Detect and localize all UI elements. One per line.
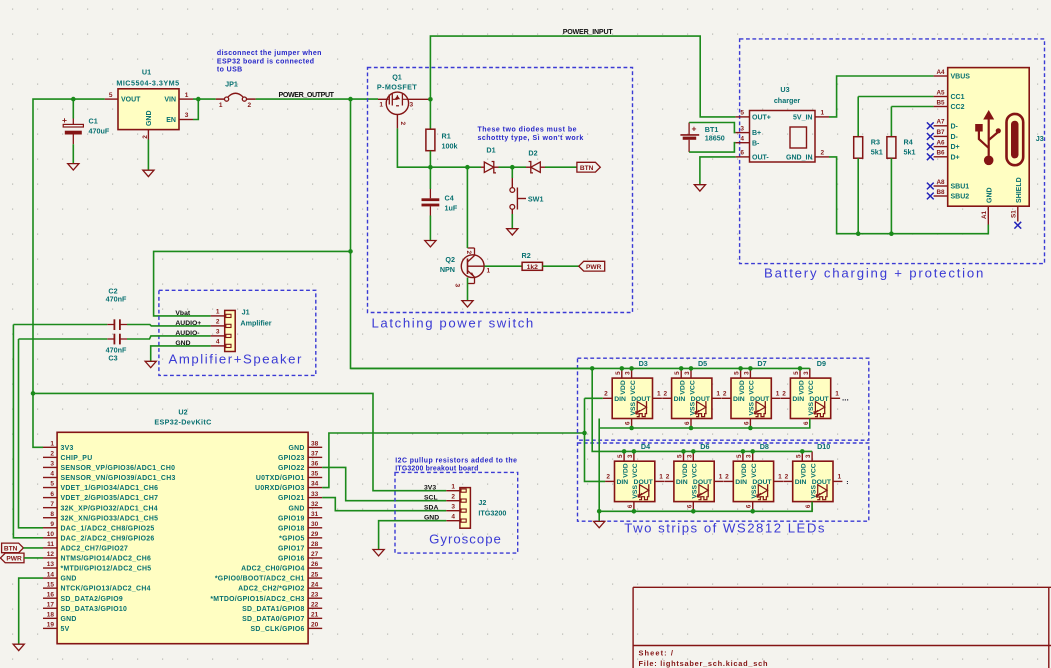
pin 26 ADC2_CH0/GPIO4 of U2 xyxy=(308,567,322,569)
svg-text:5: 5 xyxy=(617,454,624,458)
svg-text:DOUT: DOUT xyxy=(691,396,711,403)
svg-text:BTN: BTN xyxy=(580,165,594,172)
LED D8 WS2812 xyxy=(733,461,773,501)
svg-text:ADC2_CH7/GPIO27: ADC2_CH7/GPIO27 xyxy=(61,546,129,553)
svg-text:DIN: DIN xyxy=(617,479,629,486)
svg-text:37: 37 xyxy=(311,451,319,458)
node Q1 drain / R1 junction xyxy=(428,97,433,102)
node D6 VCC xyxy=(691,449,696,454)
svg-text:MIC5504-3.3YM5: MIC5504-3.3YM5 xyxy=(116,79,179,88)
svg-text:Q1: Q1 xyxy=(392,73,402,82)
svg-text:ADC2_CH2/*GPIO2: ADC2_CH2/*GPIO2 xyxy=(238,586,305,593)
svg-text:6: 6 xyxy=(627,504,634,508)
pin A1 GND of J3 xyxy=(987,206,989,224)
svg-text:GND: GND xyxy=(288,445,304,452)
pin 1 5V_IN of U3 xyxy=(815,116,829,118)
ground for LED strips xyxy=(594,521,605,527)
svg-text:5V_IN: 5V_IN xyxy=(793,115,812,122)
pin 5 VDET_1/GPIO34/ADC1_CH6 of U2 xyxy=(43,487,57,489)
ground for C1 xyxy=(68,164,79,170)
svg-text:1: 1 xyxy=(716,391,720,398)
pin 34 U0RXD/GPIO3 of U2 xyxy=(308,487,322,489)
svg-text:5: 5 xyxy=(736,454,743,458)
svg-text:25: 25 xyxy=(311,571,319,578)
connector J1 Amplifier xyxy=(225,310,236,351)
svg-text:GPIO19: GPIO19 xyxy=(278,515,305,522)
svg-text:R2: R2 xyxy=(522,251,531,260)
svg-text:DOUT: DOUT xyxy=(809,396,829,403)
wire PWR to pin 12 xyxy=(24,557,43,559)
svg-text:5: 5 xyxy=(740,110,744,117)
node D8 VCC xyxy=(750,449,755,454)
svg-text:1k2: 1k2 xyxy=(527,264,539,271)
pin 10 DAC_2/ADC2_CH9/GPIO26 of U2 xyxy=(43,537,57,539)
svg-text:2: 2 xyxy=(451,493,455,500)
svg-text:3: 3 xyxy=(627,454,634,458)
svg-text:VDD: VDD xyxy=(622,463,629,477)
svg-text:VDD: VDD xyxy=(741,463,748,477)
svg-text:1: 1 xyxy=(50,441,54,448)
wire VIN to EN feedback xyxy=(193,99,198,119)
svg-text:27: 27 xyxy=(311,551,319,558)
svg-text:DOUT: DOUT xyxy=(693,479,713,486)
pin 1 base of Q2 xyxy=(468,265,485,267)
svg-text:28: 28 xyxy=(311,541,319,548)
svg-text:JP1: JP1 xyxy=(225,80,238,89)
svg-text:D+: D+ xyxy=(951,154,960,161)
svg-text:SDA: SDA xyxy=(424,505,438,512)
LED D4 WS2812 xyxy=(615,461,655,501)
svg-text:to USB: to USB xyxy=(217,67,243,74)
section box Battery charging + protection xyxy=(740,39,1045,264)
pin B7 D- of J3 xyxy=(934,135,948,137)
svg-text:D8: D8 xyxy=(760,442,769,451)
pin 38 GND of U2 xyxy=(308,446,322,448)
svg-text:3: 3 xyxy=(805,454,812,458)
pin 16 SD_DATA2/GPIO9 of U2 xyxy=(43,597,57,599)
node LED data junction xyxy=(582,431,587,436)
pin B8 SBU2 of J3 xyxy=(934,195,948,197)
svg-text:12: 12 xyxy=(47,551,55,558)
ground for U2 xyxy=(13,644,24,650)
svg-text:VDD: VDD xyxy=(620,380,627,394)
svg-text:3: 3 xyxy=(185,112,189,119)
pin 4 SENSOR_VN/GPIO39/ADC1_CH3 of U2 xyxy=(43,476,57,478)
node D6 VDD xyxy=(681,449,686,454)
node D3 VDD xyxy=(620,366,625,371)
wire BTN to pin 11 xyxy=(23,547,43,549)
svg-text:D5: D5 xyxy=(698,359,707,368)
svg-text:*MTDI/GPIO12/ADC2_CH5: *MTDI/GPIO12/ADC2_CH5 xyxy=(61,566,152,573)
node VDD branch to strip 2 xyxy=(590,366,595,371)
svg-text:DIN: DIN xyxy=(792,396,804,403)
wire emitter to ground xyxy=(467,278,469,301)
wire U1 GND to ground xyxy=(147,140,149,170)
pin 7 32K_XP/GPIO32/ADC1_CH4 of U2 xyxy=(43,507,57,509)
svg-text:DOUT: DOUT xyxy=(631,396,651,403)
svg-text:3V3: 3V3 xyxy=(424,485,436,492)
svg-text:A1: A1 xyxy=(981,210,988,219)
svg-text:DIN: DIN xyxy=(614,396,626,403)
regulator U1 MIC5504-3.3YM5 xyxy=(118,89,179,130)
svg-text:32: 32 xyxy=(311,501,319,508)
svg-text:POWER_INPUT: POWER_INPUT xyxy=(563,28,614,36)
svg-text:3: 3 xyxy=(686,454,693,458)
svg-text:2: 2 xyxy=(782,391,786,398)
pin 6 OUT- of U3 xyxy=(736,156,750,158)
wire OUT- to ground xyxy=(700,157,736,185)
node D8 VSS xyxy=(750,509,755,514)
pin 3 EN of U1 xyxy=(179,119,193,121)
svg-text:D3: D3 xyxy=(639,359,648,368)
node D4 VDD xyxy=(622,449,627,454)
svg-text:10: 10 xyxy=(47,531,55,538)
node D6 VSS xyxy=(691,509,696,514)
svg-text:2: 2 xyxy=(606,474,610,481)
wire DAC_2 to C2 xyxy=(13,324,107,326)
wire R1 to latch node xyxy=(429,151,431,168)
svg-text:33: 33 xyxy=(311,491,319,498)
svg-text:1uF: 1uF xyxy=(445,204,458,213)
svg-text:Vbat: Vbat xyxy=(175,310,190,317)
svg-text:3: 3 xyxy=(216,329,220,336)
svg-text:GPIO21: GPIO21 xyxy=(278,495,305,502)
svg-text:CC1: CC1 xyxy=(951,94,965,101)
wire VIN to JP1 xyxy=(198,98,216,100)
svg-text:23: 23 xyxy=(311,591,319,598)
svg-text:6: 6 xyxy=(746,504,753,508)
global label BTN xyxy=(577,162,600,172)
svg-text:A5: A5 xyxy=(936,89,945,96)
svg-text:14: 14 xyxy=(47,571,55,578)
svg-text:6: 6 xyxy=(625,421,632,425)
pin 23 *MTDO/GPIO15/ADC2_CH3 of U2 xyxy=(308,597,322,599)
battery BT1 18650 xyxy=(688,123,690,135)
pin 22 SD_DATA1/GPIO8 of U2 xyxy=(308,607,322,609)
wire C2 to AUDIO+ xyxy=(127,325,211,326)
svg-text:D4: D4 xyxy=(641,442,650,451)
svg-text:VDD: VDD xyxy=(801,463,808,477)
wire GPIO22 to SCL xyxy=(322,467,446,500)
node SW1 branch xyxy=(510,165,515,170)
pin B6 D+ of J3 xyxy=(934,156,948,158)
pin B5 CC2 of J3 xyxy=(934,106,948,108)
svg-text:C3: C3 xyxy=(108,354,117,363)
LED D10 WS2812 xyxy=(793,461,833,501)
svg-text:D-: D- xyxy=(951,123,959,130)
svg-text:VCC: VCC xyxy=(749,380,756,394)
svg-text:VDET_2/GPIO35/ADC1_CH7: VDET_2/GPIO35/ADC1_CH7 xyxy=(61,495,159,502)
svg-text:5: 5 xyxy=(677,454,684,458)
svg-text:GND: GND xyxy=(61,616,77,623)
svg-text:SD_DATA1/GPIO8: SD_DATA1/GPIO8 xyxy=(242,606,305,613)
svg-text:DIN: DIN xyxy=(676,479,688,486)
ground for Q2 xyxy=(462,301,473,307)
svg-text:A6: A6 xyxy=(936,139,945,146)
svg-text:5: 5 xyxy=(674,371,681,375)
USB connector J3 xyxy=(948,68,1029,207)
svg-text:VCC: VCC xyxy=(751,463,758,477)
transistor Q2 NPN xyxy=(461,255,484,278)
svg-text:Latching power switch: Latching power switch xyxy=(372,316,535,331)
svg-text:VCC: VCC xyxy=(808,380,815,394)
pin 3 B+ of U3 xyxy=(736,132,750,134)
wire J1 GND to ground xyxy=(151,346,211,361)
svg-text:GPIO22: GPIO22 xyxy=(278,465,305,472)
svg-text:POWER_OUTPUT: POWER_OUTPUT xyxy=(279,91,335,99)
svg-text:GND: GND xyxy=(987,187,994,203)
pin 8 32K_XN/GPIO33/ADC1_CH5 of U2 xyxy=(43,517,57,519)
svg-text:A7: A7 xyxy=(936,119,945,126)
svg-text:DOUT: DOUT xyxy=(634,479,654,486)
pin A5 CC1 of J3 xyxy=(934,96,948,98)
svg-text:D9: D9 xyxy=(817,359,826,368)
svg-text:SD_CLK/GPIO6: SD_CLK/GPIO6 xyxy=(251,626,305,633)
wire R3 to CC1 xyxy=(858,96,933,98)
LED D5 WS2812 xyxy=(672,378,712,418)
pin 3 emitter of Q2 xyxy=(474,277,476,284)
svg-text:Battery charging + protection: Battery charging + protection xyxy=(764,265,985,280)
svg-text:100k: 100k xyxy=(442,142,458,151)
node 3V3 gyro branch xyxy=(31,391,36,396)
svg-text:D+: D+ xyxy=(951,144,960,151)
svg-text:29: 29 xyxy=(311,531,319,538)
svg-text:GPIO17: GPIO17 xyxy=(278,546,305,553)
pin A7 D- of J3 xyxy=(934,125,948,127)
svg-text:1: 1 xyxy=(216,309,220,316)
svg-text:1: 1 xyxy=(776,391,780,398)
svg-text:OUT+: OUT+ xyxy=(752,115,771,122)
node D5 VSS xyxy=(689,426,694,431)
svg-text:B7: B7 xyxy=(936,129,945,136)
svg-text:6: 6 xyxy=(740,150,744,157)
svg-text:6: 6 xyxy=(803,421,810,425)
svg-text:470nF: 470nF xyxy=(106,295,127,304)
svg-text:32K_XN/GPIO33/ADC1_CH5: 32K_XN/GPIO33/ADC1_CH5 xyxy=(61,515,159,522)
svg-text:B8: B8 xyxy=(936,189,945,196)
svg-text:2: 2 xyxy=(604,391,608,398)
wire latch node horizontal xyxy=(430,166,481,168)
svg-text:GND: GND xyxy=(146,110,153,126)
node D3 VCC xyxy=(629,366,634,371)
svg-text:Sheet: /: Sheet: / xyxy=(639,649,675,658)
svg-text:SENSOR_VN/GPIO39/ADC1_CH3: SENSOR_VN/GPIO39/ADC1_CH3 xyxy=(61,475,176,482)
svg-text:6: 6 xyxy=(684,421,691,425)
pin 3 of J1 xyxy=(211,335,225,337)
wire Vbat to amplifier xyxy=(154,251,351,316)
node POWER_OUTPUT branch xyxy=(348,97,353,102)
resistor R2 1k2 xyxy=(522,262,542,270)
svg-text:S1: S1 xyxy=(1011,210,1018,218)
svg-text:VDD: VDD xyxy=(680,380,687,394)
node D10 VDD xyxy=(800,449,805,454)
svg-text:...: ... xyxy=(842,394,849,403)
svg-text:36: 36 xyxy=(311,461,319,468)
svg-text:2: 2 xyxy=(666,474,670,481)
svg-text:SCL: SCL xyxy=(424,495,438,502)
svg-text:EN: EN xyxy=(166,117,176,124)
pin 36 GPIO22 of U2 xyxy=(308,466,322,468)
svg-text:5: 5 xyxy=(109,92,113,99)
node Vbat branch xyxy=(348,249,353,254)
section box LED strip 2 xyxy=(578,443,869,521)
svg-text:1: 1 xyxy=(451,483,455,490)
wire VSS rail strip 1 xyxy=(598,419,600,429)
svg-text:ITG3200: ITG3200 xyxy=(478,509,506,518)
svg-text:2: 2 xyxy=(785,474,789,481)
wire 3V3 rail from U1 VOUT to ESP32 xyxy=(33,99,105,447)
svg-text:13: 13 xyxy=(47,561,55,568)
node D7 VCC xyxy=(748,366,753,371)
svg-text:34: 34 xyxy=(311,481,319,488)
pin 31 GPIO19 of U2 xyxy=(308,517,322,519)
svg-text:VDD: VDD xyxy=(798,380,805,394)
USB symbol of J3 xyxy=(983,110,994,120)
svg-text:VCC: VCC xyxy=(692,463,699,477)
node R4 ground junction xyxy=(889,231,894,236)
svg-text:Amplifier+Speaker: Amplifier+Speaker xyxy=(169,352,303,367)
svg-text:1: 1 xyxy=(657,391,661,398)
wire C3 to AUDIO- xyxy=(127,336,211,339)
LED D6 WS2812 xyxy=(674,461,714,501)
svg-text:C4: C4 xyxy=(445,194,454,203)
svg-text:2: 2 xyxy=(465,251,472,255)
switch SW1 xyxy=(511,167,513,178)
wire 5V_IN to VBUS xyxy=(829,76,934,117)
svg-text:U0TXD/GPIO1: U0TXD/GPIO1 xyxy=(256,475,305,482)
svg-text:6: 6 xyxy=(686,504,693,508)
wire collector to latch node xyxy=(466,167,468,248)
svg-text:3: 3 xyxy=(625,371,632,375)
global label PWR at U2 xyxy=(0,553,24,563)
svg-text:3: 3 xyxy=(743,371,750,375)
section box LED strip 1 xyxy=(578,358,869,440)
svg-text:D2: D2 xyxy=(528,149,537,158)
section box Latching power switch xyxy=(368,68,633,313)
svg-text:Q2: Q2 xyxy=(445,255,455,264)
svg-text:P-MOSFET: P-MOSFET xyxy=(377,83,418,92)
svg-text:470uF: 470uF xyxy=(89,127,110,136)
svg-text:GND: GND xyxy=(288,505,304,512)
svg-text:6: 6 xyxy=(805,504,812,508)
pin 4 B- of U3 xyxy=(736,142,750,144)
svg-text:ESP32 board is connected: ESP32 board is connected xyxy=(217,58,315,65)
wire D1 to D2 xyxy=(499,166,527,168)
svg-text:J3: J3 xyxy=(1036,134,1044,143)
global label BTN at U2 xyxy=(2,543,24,553)
node VIN junction xyxy=(196,97,201,102)
svg-text:DIN: DIN xyxy=(674,396,686,403)
svg-text:3: 3 xyxy=(684,371,691,375)
svg-text:17: 17 xyxy=(47,601,55,608)
svg-text:PWR: PWR xyxy=(6,555,22,562)
svg-text:30: 30 xyxy=(311,521,319,528)
pin 3 of Q1 xyxy=(406,98,430,100)
pin 28 GPIO17 of U2 xyxy=(308,547,322,549)
LED D7 WS2812 xyxy=(731,378,771,418)
resistor R1 100k xyxy=(426,129,435,151)
node VSS junction xyxy=(597,509,602,514)
svg-text:4: 4 xyxy=(740,135,744,142)
wire VSS rail strip 2 xyxy=(599,502,812,512)
pin 2 of J2 xyxy=(446,500,460,502)
svg-text:B-: B- xyxy=(752,140,760,147)
svg-text:1: 1 xyxy=(835,391,839,398)
svg-text:Two strips of WS2812 LEDs: Two strips of WS2812 LEDs xyxy=(624,520,826,535)
node D7 VSS xyxy=(748,426,753,431)
wire 3V3 to gyroscope xyxy=(33,393,446,490)
svg-text:GPIO23: GPIO23 xyxy=(278,455,305,462)
svg-text:3: 3 xyxy=(454,284,461,288)
pin 18 GND of U2 xyxy=(43,617,57,619)
node D9 VDD xyxy=(798,366,803,371)
USB-C pill of J3 xyxy=(1007,114,1024,165)
capacitor C1 xyxy=(72,99,74,118)
svg-text:3: 3 xyxy=(746,454,753,458)
svg-text:VDD: VDD xyxy=(682,463,689,477)
svg-text:VCC: VCC xyxy=(630,380,637,394)
pin 2 GND_IN of U3 xyxy=(815,156,829,158)
wire VDD rail strip 1 xyxy=(351,367,810,369)
svg-text:3V3: 3V3 xyxy=(61,445,74,452)
wire D2 to BTN label xyxy=(545,166,577,168)
wire U2 GND to ground xyxy=(19,578,43,644)
svg-text:SW1: SW1 xyxy=(528,195,544,204)
svg-text:5k1: 5k1 xyxy=(871,148,883,157)
pin 37 GPIO23 of U2 xyxy=(308,456,322,458)
svg-text:A4: A4 xyxy=(936,69,945,76)
svg-text:DOUT: DOUT xyxy=(812,479,832,486)
svg-text:2: 2 xyxy=(248,102,252,109)
svg-text:AUDIO+: AUDIO+ xyxy=(175,320,201,327)
svg-text:DIN: DIN xyxy=(733,396,745,403)
pin 1 of J1 xyxy=(211,315,225,317)
svg-text:2: 2 xyxy=(216,319,220,326)
wire GPIO21 to SDA xyxy=(322,498,446,511)
svg-text:GND: GND xyxy=(61,576,77,583)
svg-text:VCC: VCC xyxy=(632,463,639,477)
svg-text:VOUT: VOUT xyxy=(121,97,141,104)
wire U0RXD to LED data xyxy=(322,433,584,488)
svg-text:VDD: VDD xyxy=(739,380,746,394)
ground for battery xyxy=(694,185,705,191)
svg-text:U2: U2 xyxy=(178,408,187,417)
svg-text:3: 3 xyxy=(451,503,455,510)
svg-text:D10: D10 xyxy=(817,442,830,451)
svg-text:*MTDO/GPIO15/ADC2_CH3: *MTDO/GPIO15/ADC2_CH3 xyxy=(210,596,304,603)
svg-text:SD_DATA2/GPIO9: SD_DATA2/GPIO9 xyxy=(61,596,124,603)
svg-text:*GPIO5: *GPIO5 xyxy=(279,535,305,542)
svg-text:1: 1 xyxy=(185,92,189,99)
ground for gyroscope xyxy=(373,550,384,556)
wire POWER_INPUT xyxy=(430,36,735,117)
pin S1 SHIELD of J3 xyxy=(1017,206,1019,221)
svg-text:B+: B+ xyxy=(752,130,761,137)
svg-text:11: 11 xyxy=(47,541,54,548)
svg-text:These two diodes must be: These two diodes must be xyxy=(478,127,578,134)
pin 17 SD_DATA3/GPIO10 of U2 xyxy=(43,607,57,609)
pin 30 GPIO18 of U2 xyxy=(308,527,322,529)
svg-text:J2: J2 xyxy=(478,498,486,507)
pin 2 GND of U1 xyxy=(147,130,149,140)
pin A6 D+ of J3 xyxy=(934,146,948,148)
svg-text:Amplifier: Amplifier xyxy=(240,319,271,328)
wire J2 GND to ground xyxy=(379,521,447,550)
pin 6 VDET_2/GPIO35/ADC1_CH7 of U2 xyxy=(43,497,57,499)
svg-text:2: 2 xyxy=(50,451,54,458)
svg-text:SHIELD: SHIELD xyxy=(1016,177,1023,203)
svg-text:35: 35 xyxy=(311,471,319,478)
